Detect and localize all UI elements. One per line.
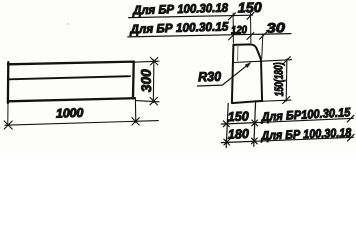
tick row1 right end <box>347 115 354 122</box>
speck <box>67 23 68 24</box>
svg-text:150(180): 150(180) <box>271 62 286 96</box>
vertical dimension 150(180) on section <box>234 57 292 104</box>
svg-text:150: 150 <box>228 108 250 124</box>
extension lines above cross-section <box>233 13 263 58</box>
svg-text:Для БР 100.30.18: Для БР 100.30.18 <box>132 1 228 18</box>
wire: separator vertical <box>254 101 256 147</box>
tick row2 mid <box>251 138 257 144</box>
wire: extension at left edge of section <box>232 13 234 43</box>
svg-text:150: 150 <box>237 0 262 16</box>
tick left of 120 <box>229 33 236 40</box>
tick right of 150 <box>247 12 254 19</box>
tick row2 left <box>224 139 230 145</box>
tick top of 300 <box>151 58 158 65</box>
wire: chamfer edge line inside side view <box>9 76 130 79</box>
wire: right extension line down <box>134 99 136 123</box>
cross-section outline of curb <box>232 44 262 103</box>
dimension 300 <box>131 58 160 105</box>
wire: top edge <box>8 62 134 65</box>
wire: bottom edge <box>8 98 135 101</box>
wire: left edge <box>7 62 10 103</box>
wire: bottom extension <box>256 100 291 101</box>
tick top <box>283 57 290 64</box>
tick right of 120 <box>247 33 254 40</box>
wire: left extension line down <box>7 102 9 126</box>
tick row1 left <box>223 121 229 127</box>
dimension 1000 <box>4 99 158 129</box>
tick right of 30 <box>260 32 267 39</box>
wire: row line under 150 <box>221 118 353 124</box>
tick bottom of 300 <box>150 97 157 104</box>
wire: bottom extension <box>136 101 159 102</box>
svg-text:1000: 1000 <box>56 106 84 121</box>
svg-text:180: 180 <box>228 126 250 142</box>
side view: curb body outline <box>8 62 135 103</box>
wire: faint double stroke on section left edge <box>237 46 239 61</box>
tick left of 1000 <box>4 121 12 129</box>
svg-text:Для БР 100.30.18: Для БР 100.30.18 <box>260 126 352 143</box>
svg-text:Для БР100.30.15: Для БР100.30.15 <box>260 105 351 124</box>
tick row1 mid <box>252 120 258 126</box>
tick right of 1000 <box>132 118 139 125</box>
tick row2 right end <box>348 134 355 141</box>
svg-text:30: 30 <box>266 20 285 36</box>
wire: dimension line 300 vertical <box>152 60 155 103</box>
svg-text:300: 300 <box>138 69 154 93</box>
tick left of 150 <box>228 13 235 20</box>
wire: left vertical extension <box>226 103 228 147</box>
wire: dimension line 1000 <box>5 121 159 126</box>
wire: dimension line vertical <box>285 59 288 101</box>
svg-text:Для БР 100.30.15: Для БР 100.30.15 <box>129 19 229 36</box>
wire: right edge <box>132 62 135 99</box>
wire: underline / dimension line 120 and 30 <box>128 34 291 37</box>
wire: extension at 120/150 right <box>250 13 252 43</box>
wire: top extension <box>131 61 160 62</box>
wire: underline / dimension line 150 <box>129 15 253 17</box>
wire: bottom line under 180 <box>221 137 353 142</box>
tick bottom <box>283 97 290 104</box>
wire: extension at 30 right <box>262 34 263 58</box>
wire: top extension <box>234 60 292 63</box>
leader line for R30 with arrow <box>197 63 249 86</box>
svg-text:R30: R30 <box>198 69 222 85</box>
bottom dimension table <box>221 101 354 148</box>
